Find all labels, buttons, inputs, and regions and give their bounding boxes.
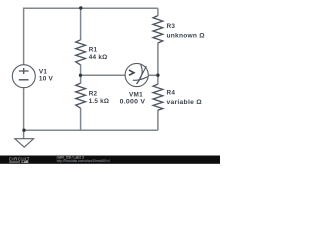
svg-text:10 V: 10 V [39, 76, 54, 83]
label R4 variable [167, 89, 202, 106]
resistor R4 (variable) right column [153, 75, 163, 130]
voltage source V1 circle [12, 65, 35, 88]
svg-text:1.5 kΩ: 1.5 kΩ [89, 98, 110, 105]
wire top: node at top-left up across to R3 [24, 8, 158, 65]
resistor R2 (1.5 k) middle column [76, 75, 86, 130]
label R3 unknown [167, 23, 205, 39]
VM1 needle [137, 66, 147, 84]
svg-text:R2: R2 [89, 91, 98, 98]
wire mid: node between R1/R2 to voltmeter [81, 74, 126, 76]
label R2 1.5 kOhm [89, 91, 110, 106]
svg-text:0.000 V: 0.000 V [120, 99, 146, 106]
svg-text:R3: R3 [167, 23, 176, 30]
label R1 44 kOhm [89, 46, 108, 61]
svg-text:LAB: LAB [22, 160, 30, 164]
svg-text:http://circuitlab.com/c/sev29m: http://circuitlab.com/c/sev29mxd8t7c4 [57, 159, 110, 163]
voltmeter VM1 circle [125, 63, 148, 86]
svg-text:variable Ω: variable Ω [167, 99, 202, 106]
label VM1 value [120, 92, 146, 106]
node: bottom-left junction at ground [22, 129, 25, 132]
resistor R3 (unknown) right column [153, 8, 163, 75]
V1 minus sign [19, 79, 29, 81]
V1 plus sign [19, 68, 29, 74]
svg-text:44 kΩ: 44 kΩ [89, 54, 108, 61]
node: mid-right junction at R3/R4 [156, 74, 159, 77]
resistor R1 (44 k) middle column [76, 8, 86, 75]
svg-text:R4: R4 [167, 89, 176, 96]
wire: voltmeter right terminal to right column [148, 74, 158, 76]
node: mid-left junction between R1 and R2 [79, 74, 82, 77]
ground [15, 139, 34, 148]
svg-text:unknown Ω: unknown Ω [167, 33, 205, 40]
footer logo CIRCUIT LAB [9, 156, 30, 164]
VM1 rotated V glyph [129, 70, 134, 75]
node: top junction [79, 6, 82, 9]
label V1 [39, 69, 54, 83]
VM1 gauge arc vertical [136, 65, 142, 84]
wire bottom: from ground node to right column [24, 88, 158, 139]
svg-text:V1: V1 [39, 69, 48, 76]
svg-text:VM1: VM1 [129, 92, 143, 99]
svg-text:R1: R1 [89, 46, 98, 53]
footer bar [0, 156, 220, 164]
VM1 gauge arc lower [133, 77, 148, 81]
